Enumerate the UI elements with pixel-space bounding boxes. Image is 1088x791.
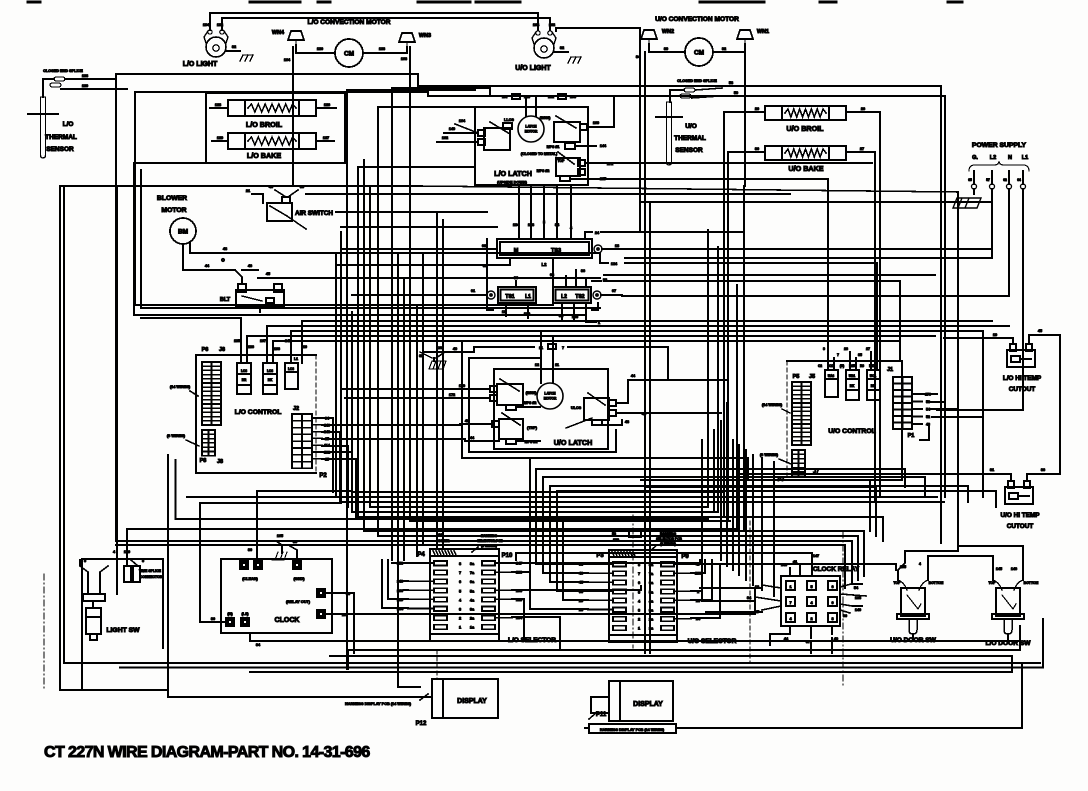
- U/O latch enclosure: [494, 369, 608, 449]
- power supply header: [972, 142, 1028, 161]
- svg-text:P3: P3: [596, 553, 604, 559]
- svg-text:139: 139: [82, 84, 88, 88]
- wire BM 48 right to TS3: [599, 253, 601, 258]
- wire outer loop 1: [116, 74, 941, 543]
- wire bus y321: [302, 321, 992, 350]
- svg-text:U/O BROIL: U/O BROIL: [786, 124, 824, 133]
- wire clock relay left leads 16/34/37: [747, 585, 781, 614]
- relay TS3: [497, 239, 602, 258]
- switch bank L/O selector: [417, 549, 556, 644]
- svg-text:TOP: TOP: [558, 159, 566, 163]
- wire air switch top leads 21/40/39: [246, 185, 304, 203]
- wire U/O cutout leads 31/36: [990, 468, 1060, 481]
- svg-text:146: 146: [1011, 567, 1017, 571]
- svg-text:U/O BAKE: U/O BAKE: [788, 164, 823, 173]
- wire TS1/TS2 bottom stubs 19 130 34 135 1: [502, 303, 600, 325]
- svg-text:45: 45: [266, 272, 270, 276]
- svg-text:WN2: WN2: [662, 29, 674, 35]
- svg-text:32: 32: [560, 46, 564, 50]
- svg-text:3: 3: [459, 608, 461, 612]
- connector P5/J5 ladder: [792, 374, 815, 445]
- svg-text:BK: BK: [268, 378, 273, 382]
- svg-text:2: 2: [638, 618, 640, 622]
- breaker BLT: [220, 284, 284, 306]
- svg-text:61: 61: [471, 289, 475, 293]
- wire display P12 drop: [348, 650, 420, 687]
- wire latch bottom staircase: [530, 458, 996, 609]
- svg-text:8: 8: [459, 562, 461, 566]
- lamp DS2 U/O light: [515, 31, 556, 72]
- terminal clock N / L2: [226, 612, 249, 626]
- stray scan fragments top edge: [28, 1, 962, 4]
- hatch P3 top: [612, 552, 635, 557]
- wire 281 run: [604, 281, 900, 361]
- wire TS3 bottom L2 / 38 / 124: [483, 258, 618, 268]
- wire U/O light right lead to bus: [533, 23, 640, 215]
- title block: [44, 744, 370, 761]
- wire bus y318 left: [141, 318, 241, 344]
- switch MPS2 L/O: [537, 152, 585, 181]
- svg-text:TOP: TOP: [989, 581, 997, 585]
- wire TS3 top stubs 134 108 2 84: [513, 185, 573, 239]
- switch LLCS L/O: [478, 118, 514, 150]
- svg-text:6: 6: [459, 580, 461, 584]
- wire L1 drop: [1022, 189, 1024, 410]
- svg-text:N: N: [1008, 155, 1012, 161]
- svg-text:67: 67: [612, 289, 616, 293]
- svg-text:(CLEAN): (CLEAN): [242, 577, 258, 581]
- svg-text:59: 59: [734, 91, 738, 95]
- svg-text:102: 102: [549, 23, 555, 27]
- svg-text:L/O: L/O: [63, 121, 74, 128]
- connector J2 grid: [292, 406, 312, 468]
- wire bottom bus lines: [120, 619, 1043, 672]
- wire BM to BLT 44/46: [183, 244, 258, 284]
- wire bus y341: [273, 341, 900, 352]
- switch U/O door: [890, 580, 943, 644]
- display module P11: [596, 681, 673, 721]
- svg-text:CUTOUT: CUTOUT: [1009, 386, 1036, 393]
- svg-text:LC3: LC3: [288, 367, 294, 371]
- svg-text:L/O BAKE: L/O BAKE: [247, 151, 282, 160]
- svg-text:WN3: WN3: [419, 33, 431, 39]
- svg-text:P1: P1: [908, 433, 915, 439]
- svg-text:P4: P4: [417, 552, 425, 558]
- thermal sensor U/O: [656, 102, 706, 165]
- wire L/O cutout leads 19/45: [944, 329, 1060, 474]
- svg-text:31: 31: [990, 468, 994, 472]
- svg-text:(6 WIRES): (6 WIRES): [760, 453, 779, 457]
- svg-text:MPS #2: MPS #2: [537, 169, 550, 173]
- svg-text:27: 27: [866, 347, 870, 351]
- wire clock left lead 30: [207, 617, 226, 622]
- svg-text:164: 164: [284, 58, 291, 62]
- relay TS2 L2: [553, 287, 601, 303]
- wire 275 run: [604, 274, 935, 276]
- svg-text:26: 26: [844, 347, 848, 351]
- svg-text:U/O SELECTOR: U/O SELECTOR: [688, 638, 737, 645]
- splice time splice connector: [124, 566, 163, 582]
- wire U/O splice leads 58/59: [670, 81, 738, 102]
- svg-text:BOTTOM: BOTTOM: [929, 581, 944, 585]
- svg-text:9: 9: [823, 347, 825, 351]
- box U/O latch outer loop 2: [462, 341, 530, 458]
- svg-text:R25: R25: [849, 364, 855, 368]
- wire PS L2 run: [625, 257, 992, 259]
- wire U/O light to ground label 32: [554, 46, 568, 52]
- wire bus y326: [267, 326, 1009, 344]
- wire WN3 drop: [409, 47, 411, 186]
- switch light sw assembly: [83, 594, 140, 640]
- wire clock 30 top riser: [257, 491, 352, 561]
- wire TS2 right 67: [601, 289, 622, 295]
- terminal G: [968, 171, 976, 189]
- svg-text:37: 37: [806, 640, 810, 644]
- board L/O control: [196, 355, 316, 473]
- connector WN4: [272, 30, 304, 45]
- svg-text:AIR SWITCH: AIR SWITCH: [295, 210, 333, 217]
- svg-text:(BRN): (BRN): [526, 391, 537, 395]
- svg-text:62: 62: [1003, 178, 1007, 182]
- svg-text:192: 192: [217, 23, 223, 27]
- svg-text:10: 10: [303, 345, 307, 349]
- wire BM lead 48: [190, 242, 600, 253]
- svg-text:172: 172: [449, 393, 455, 397]
- connector WN2: [641, 29, 674, 44]
- svg-text:92: 92: [722, 47, 726, 51]
- svg-text:49: 49: [834, 637, 838, 641]
- svg-text:J1: J1: [887, 367, 893, 373]
- svg-text:L1: L1: [1022, 155, 1028, 161]
- box light sw enclosure: [82, 559, 163, 690]
- svg-text:P2: P2: [319, 473, 327, 479]
- svg-text:CT 227N WIRE DIAGRAM-PART NO.: CT 227N WIRE DIAGRAM-PART NO. 14-31-696: [44, 744, 370, 761]
- svg-text:134: 134: [513, 223, 520, 227]
- svg-text:CLOSED END SPLICE: CLOSED END SPLICE: [677, 79, 717, 83]
- svg-text:L2: L2: [561, 294, 567, 300]
- label 360/330 172 + harness selector pcb: [437, 533, 504, 552]
- wire CM leads w/ labels 130,133,164,163: [284, 45, 407, 62]
- svg-text:SENSOR: SENSOR: [46, 146, 74, 153]
- label (6 wires): [167, 434, 199, 446]
- wire U/O selector left leads: [579, 563, 613, 613]
- svg-text:BLT: BLT: [220, 297, 231, 303]
- svg-text:137: 137: [600, 177, 606, 181]
- terminal N: [1003, 171, 1011, 189]
- wire L/O selector right leads: [495, 562, 523, 621]
- svg-text:30: 30: [248, 548, 252, 552]
- wire U/O CM leads labels 39,92,34: [636, 44, 745, 59]
- svg-text:L/O CONVECTION MOTOR: L/O CONVECTION MOTOR: [307, 19, 390, 26]
- svg-text:P12: P12: [416, 721, 427, 727]
- terminal clock aux: [317, 610, 325, 618]
- connector P8/J8 ladder: [200, 430, 223, 465]
- svg-text:J8: J8: [217, 459, 223, 465]
- svg-text:BM: BM: [178, 229, 188, 236]
- svg-text:60: 60: [843, 614, 847, 618]
- svg-text:TS3: TS3: [551, 248, 561, 254]
- svg-text:8: 8: [831, 617, 833, 621]
- svg-text:138: 138: [855, 596, 861, 600]
- wire J1 right connects: [920, 394, 983, 440]
- wire TS3 68 left: [341, 248, 460, 250]
- svg-text:21: 21: [246, 189, 250, 193]
- svg-text:1: 1: [459, 626, 461, 630]
- wire U/O MPS2 leads 170/172: [444, 384, 540, 407]
- svg-text:(14 WIRES): (14 WIRES): [170, 385, 191, 389]
- wire blower box inner: [141, 170, 600, 308]
- svg-text:2: 2: [459, 617, 461, 621]
- wire control top stubs w/ labels: [234, 339, 307, 363]
- wire U/O MPS1 leads 42/44: [460, 419, 540, 441]
- terminal clock clean pair: [240, 561, 262, 581]
- crease dash-dot: [43, 574, 45, 690]
- wire clock relay 147 riser: [516, 553, 812, 560]
- svg-text:30: 30: [755, 147, 759, 151]
- svg-text:G.: G.: [972, 155, 978, 161]
- svg-text:7: 7: [789, 601, 791, 605]
- splice closed end L/O: [43, 69, 83, 87]
- svg-text:HARNESS DISPLAY PCB (14 WIRES): HARNESS DISPLAY PCB (14 WIRES): [600, 728, 665, 732]
- connector WN1: [737, 29, 769, 44]
- wire latch U/O top stubs 12 11: [535, 331, 559, 383]
- svg-text:HARNESS DISPLAY PCB (14 WIRES): HARNESS DISPLAY PCB (14 WIRES): [345, 702, 412, 706]
- svg-text:11: 11: [555, 363, 559, 367]
- svg-text:64: 64: [1017, 178, 1021, 182]
- svg-text:R6: R6: [860, 364, 864, 368]
- svg-text:20: 20: [755, 107, 759, 111]
- svg-text:LC8: LC8: [267, 369, 273, 373]
- svg-text:144: 144: [600, 144, 607, 148]
- svg-text:7: 7: [562, 346, 564, 350]
- switch MPS1 bottom terminal 144: [547, 143, 607, 149]
- svg-text:130: 130: [317, 47, 323, 51]
- wire PS N run: [622, 295, 1009, 297]
- svg-text:39: 39: [664, 47, 668, 51]
- wire MPS1 lead 169: [587, 96, 614, 127]
- terminal clock relay out: [286, 589, 325, 604]
- svg-text:1: 1: [638, 627, 640, 631]
- svg-text:0: 0: [831, 601, 833, 605]
- relay LC8/BR: [237, 363, 251, 394]
- connector WN3: [399, 33, 431, 47]
- svg-text:133: 133: [379, 47, 385, 51]
- svg-text:L2: L2: [990, 155, 996, 161]
- svg-text:194: 194: [203, 23, 210, 27]
- wire staircase drops right: [845, 480, 883, 588]
- heater L/O bake: [228, 133, 316, 160]
- svg-text:164: 164: [459, 119, 466, 123]
- svg-text:163: 163: [437, 346, 443, 350]
- svg-text:169: 169: [593, 121, 599, 125]
- svg-text:LIGHT SW: LIGHT SW: [106, 627, 140, 634]
- wire clock relay bottom 44/37/49: [770, 626, 838, 645]
- svg-text:35: 35: [858, 353, 862, 357]
- crease dash-dot right: [842, 532, 844, 688]
- wire broil leads 128/126: [210, 103, 336, 108]
- wire P4 top drops: [437, 520, 443, 549]
- wire L2 drop: [991, 189, 993, 258]
- svg-text:(14 WIRES): (14 WIRES): [762, 403, 783, 407]
- heater L/O broil: [228, 100, 316, 129]
- svg-text:J5: J5: [809, 374, 815, 380]
- wire y202 run: [640, 201, 992, 203]
- motor CM U/O convection: [655, 16, 739, 66]
- relay LC8/BK: [263, 363, 277, 394]
- svg-text:32: 32: [232, 45, 236, 49]
- svg-text:U/O CONTROL: U/O CONTROL: [828, 428, 876, 435]
- svg-text:140: 140: [855, 608, 861, 612]
- svg-text:L2: L2: [542, 262, 548, 267]
- wire bundle mid-right verticals: [640, 28, 880, 653]
- splice closed end U/O: [677, 79, 717, 98]
- wire L/O light to ground, label 32: [226, 45, 240, 51]
- wire 38 left: [336, 264, 490, 266]
- L/O latch enclosure: [475, 107, 588, 185]
- svg-text:UA3: UA3: [828, 374, 835, 378]
- wire clock left 30 riser: [200, 503, 341, 622]
- svg-text:WN1: WN1: [757, 29, 769, 35]
- wire BLT drop: [242, 290, 278, 312]
- label (6 wires) U/O: [760, 453, 791, 464]
- wire PS L1 run: [937, 338, 1023, 410]
- wire U/O cutout feed: [737, 431, 997, 474]
- wire L/O light leads: [203, 13, 550, 30]
- ground U/O light: [568, 57, 581, 63]
- svg-text:BOTTOM: BOTTOM: [1024, 581, 1039, 585]
- wire harness vert x168: [167, 455, 169, 690]
- wire TS feed y212: [336, 211, 487, 213]
- svg-text:149: 149: [449, 127, 455, 131]
- svg-text:DISPLAY: DISPLAY: [633, 701, 663, 708]
- svg-text:6: 6: [638, 581, 640, 585]
- svg-text:CUTOUT: CUTOUT: [1007, 523, 1034, 530]
- wire BLT lead 45: [258, 272, 600, 278]
- wire lightsw 120 bus y529: [127, 529, 737, 566]
- wire light sw riser 4: [116, 186, 118, 594]
- wire TS3 24: [585, 231, 700, 239]
- wire blower box: [134, 163, 586, 315]
- svg-text:68: 68: [482, 244, 486, 248]
- cutout L/O hi temp: [1003, 344, 1042, 393]
- svg-text:(L2): (L2): [242, 612, 250, 616]
- terminal L2: [986, 171, 994, 189]
- svg-text:LATCH: LATCH: [544, 392, 556, 396]
- svg-text:TOP: TOP: [894, 581, 902, 585]
- svg-text:U/O LIGHT: U/O LIGHT: [515, 65, 551, 72]
- motor latch L/O: [518, 116, 544, 142]
- svg-text:THERMAL: THERMAL: [674, 135, 706, 142]
- heater U/O bake: [765, 146, 846, 173]
- power supply brace: [969, 161, 1029, 171]
- svg-text:P5: P5: [793, 374, 800, 380]
- ground L/O light: [240, 55, 253, 61]
- timer clock board: [221, 559, 332, 633]
- svg-text:(CLOSED TO METAL): (CLOSED TO METAL): [521, 152, 558, 156]
- svg-text:6: 6: [831, 585, 833, 589]
- display module P12: [416, 679, 498, 727]
- wire clock bottom lead 34: [250, 633, 1020, 647]
- wire TS3 18 run: [625, 248, 992, 250]
- wire 49 into 11-EB-7: [423, 347, 480, 352]
- label P2: [319, 473, 327, 479]
- svg-text:L1: L1: [525, 294, 531, 300]
- svg-text:26: 26: [861, 107, 865, 111]
- svg-text:63: 63: [550, 273, 554, 277]
- svg-text:108: 108: [528, 223, 534, 227]
- svg-text:163: 163: [401, 57, 407, 61]
- wire TS1/TS2 top stubs 30 63 36 23: [514, 259, 607, 287]
- wire U/O control top stubs: [818, 347, 877, 370]
- wire TS3 24 run: [700, 231, 744, 233]
- wire TS3 right 18: [602, 244, 625, 249]
- wire door sw link: [905, 546, 1023, 574]
- wire display P11 frame: [591, 697, 609, 713]
- svg-text:WN4: WN4: [272, 30, 285, 36]
- svg-text:C2: C2: [818, 364, 822, 368]
- svg-text:U/O HI TEMP: U/O HI TEMP: [1000, 512, 1040, 519]
- svg-text:(D): (D): [840, 364, 844, 368]
- svg-text:BK: BK: [850, 384, 855, 388]
- switch U/O MPS2 (BRN): [490, 379, 537, 410]
- svg-text:L/O CONTROL: L/O CONTROL: [235, 409, 282, 416]
- wire selector P3 left feeds: [530, 520, 588, 609]
- switch MPS1 L/O w/ (BRN): [540, 116, 587, 142]
- svg-text:DISPLAY: DISPLAY: [457, 698, 487, 705]
- board U/O control: [787, 361, 902, 480]
- wire splice leads 138/139: [43, 74, 127, 97]
- svg-text:U/O CONVECTION MOTOR: U/O CONVECTION MOTOR: [655, 16, 739, 23]
- svg-text:L/O LIGHT: L/O LIGHT: [183, 61, 218, 68]
- svg-text:(TRP): (TRP): [527, 426, 538, 430]
- svg-text:48: 48: [223, 247, 227, 251]
- wire bus y336: [247, 336, 935, 350]
- svg-text:P10: P10: [502, 553, 513, 559]
- wire WN2 drop: [644, 52, 646, 95]
- svg-text:19: 19: [993, 333, 997, 337]
- svg-text:30: 30: [514, 276, 518, 280]
- wire long bus y186: [60, 186, 958, 545]
- wire display P12 dashed: [436, 650, 438, 679]
- label (14 wires) U/O: [762, 403, 790, 413]
- relay UA3: [825, 370, 838, 397]
- wire 124 run: [625, 263, 877, 370]
- pins U/O selector: [613, 562, 674, 631]
- svg-text:5: 5: [810, 585, 812, 589]
- svg-text:U/O LATCH: U/O LATCH: [554, 438, 593, 447]
- wire J2 row drops: [322, 418, 356, 517]
- wire latch 170/172 left runs: [341, 389, 455, 398]
- svg-text:THERMAL: THERMAL: [45, 134, 77, 141]
- svg-text:45: 45: [1038, 329, 1042, 333]
- svg-text:MPS #2: MPS #2: [524, 401, 537, 405]
- svg-text:UB1: UB1: [849, 374, 856, 378]
- wire U/O door leads 105/106: [898, 556, 928, 580]
- wire J2 long rows to latch 42/44: [322, 425, 465, 441]
- wire TS1 61 left: [352, 294, 462, 296]
- svg-text:CLOSED END SPLICE: CLOSED END SPLICE: [43, 69, 83, 73]
- svg-text:7: 7: [837, 353, 839, 357]
- relay LC3: [285, 363, 298, 389]
- lamp DS1 L/O light: [183, 30, 228, 68]
- svg-text:162: 162: [442, 136, 448, 140]
- relay UB1: [846, 370, 859, 400]
- svg-text:138: 138: [82, 74, 88, 78]
- wire y194 run: [306, 193, 790, 195]
- svg-text:65: 65: [968, 178, 972, 182]
- svg-text:SENSOR: SENSOR: [675, 147, 703, 154]
- svg-text:L/O LATCH: L/O LATCH: [494, 169, 532, 178]
